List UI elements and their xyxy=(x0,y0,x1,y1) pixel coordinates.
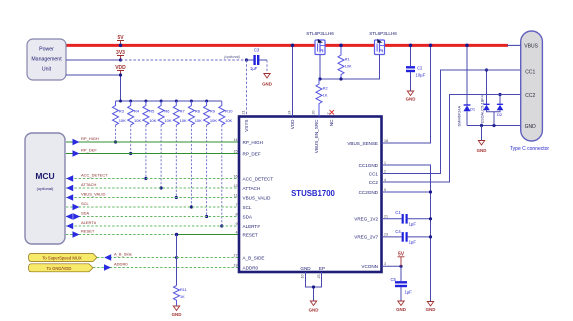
svg-text:(optional): (optional) xyxy=(37,186,54,191)
svg-text:RESET: RESET xyxy=(81,229,95,234)
wire gnd drop xyxy=(481,126,483,141)
svg-text:10K: 10K xyxy=(195,118,202,123)
ground (IC) xyxy=(309,301,319,312)
svg-text:1: 1 xyxy=(384,161,386,165)
capacitor C5 1uF xyxy=(391,266,413,300)
wire ADDR0 xyxy=(93,267,239,269)
svg-text:ATTACH: ATTACH xyxy=(81,182,97,187)
wire R4 to RP_DEF xyxy=(130,125,132,153)
node GND/EP join xyxy=(312,285,315,288)
wire VCONN xyxy=(382,265,402,267)
svg-text:RP_DEF: RP_DEF xyxy=(81,148,97,153)
svg-text:Management: Management xyxy=(31,57,62,63)
svg-text:15: 15 xyxy=(234,149,238,153)
node D1 on rail xyxy=(465,44,469,48)
svg-text:VBUS_EN_SRC: VBUS_EN_SRC xyxy=(314,119,319,153)
wire Q2 gate down xyxy=(319,55,380,80)
svg-text:ACC_DETECT: ACC_DETECT xyxy=(243,176,274,181)
svg-text:R4: R4 xyxy=(134,109,140,114)
wire RP_DEF xyxy=(66,153,239,155)
svg-text:VREG_2V7: VREG_2V7 xyxy=(354,235,378,240)
node RESET pulldown junction xyxy=(175,233,179,237)
svg-text:1µF: 1µF xyxy=(250,66,258,71)
svg-text:GND: GND xyxy=(396,307,406,312)
svg-text:CC2GND: CC2GND xyxy=(359,190,379,195)
node 5V on VBUS rail xyxy=(119,44,123,48)
svg-text:CC1: CC1 xyxy=(369,171,379,176)
MCU box (optional) xyxy=(25,133,65,244)
svg-text:ATTACH: ATTACH xyxy=(243,186,261,191)
svg-text:12: 12 xyxy=(234,184,238,188)
svg-text:D2: D2 xyxy=(497,112,503,117)
U1 right pin numbers xyxy=(384,139,388,266)
arrow A_B_SIDE xyxy=(104,254,111,261)
svg-text:STUSB1700: STUSB1700 xyxy=(291,189,335,198)
svg-text:VDD: VDD xyxy=(290,119,295,129)
ground (bus bottom) xyxy=(426,302,436,312)
wire VBUS stub to connector xyxy=(507,44,521,46)
svg-text:RP_HIGH: RP_HIGH xyxy=(243,140,263,145)
wire R10 to ALERT# xyxy=(221,125,223,226)
ground (ESD) xyxy=(477,141,487,153)
svg-text:C4: C4 xyxy=(395,229,401,234)
wire A_B_SIDE xyxy=(97,257,239,259)
svg-text:1µF: 1µF xyxy=(405,290,413,295)
svg-text:(optional): (optional) xyxy=(224,55,241,59)
svg-text:VREG_1V2: VREG_1V2 xyxy=(354,217,378,222)
svg-text:VSYS: VSYS xyxy=(244,120,249,132)
svg-text:20: 20 xyxy=(312,111,316,115)
svg-text:4: 4 xyxy=(236,230,238,234)
svg-text:R6: R6 xyxy=(164,109,170,114)
svg-text:10K: 10K xyxy=(149,118,156,123)
node VDD xyxy=(119,73,122,76)
svg-text:7: 7 xyxy=(236,203,238,207)
svg-text:SMM6F24A: SMM6F24A xyxy=(456,106,461,127)
svg-text:R8: R8 xyxy=(195,109,201,114)
svg-text:R3: R3 xyxy=(119,109,125,114)
svg-text:21: 21 xyxy=(242,111,246,115)
svg-text:C2: C2 xyxy=(417,66,423,71)
node D2 on CC2 xyxy=(498,93,501,96)
power symbol 5V (top) xyxy=(117,35,124,45)
svg-text:10K: 10K xyxy=(210,118,217,123)
resistor R11 1K xyxy=(174,286,187,306)
svg-text:STL6P3LLH6: STL6P3LLH6 xyxy=(369,31,397,36)
ground (C2) xyxy=(406,91,416,102)
svg-text:VCONN: VCONN xyxy=(361,264,378,269)
ground (C5) xyxy=(396,301,406,312)
wire CC1GND to gnd bus xyxy=(382,165,431,301)
svg-text:10K: 10K xyxy=(180,118,187,123)
node C1 on bus xyxy=(429,217,432,220)
svg-text:C3: C3 xyxy=(254,48,260,53)
ground (R11) xyxy=(172,306,182,317)
wire ALERT# xyxy=(66,225,239,227)
svg-text:GND: GND xyxy=(262,82,272,87)
wire SCL xyxy=(66,206,239,208)
wire RP_HIGH xyxy=(66,141,239,143)
wire CC2GND xyxy=(382,191,431,193)
svg-text:10K: 10K xyxy=(119,118,126,123)
svg-text:R11: R11 xyxy=(180,288,187,292)
svg-text:A_B_Side: A_B_Side xyxy=(114,252,133,257)
wire R6 to ATTACH xyxy=(160,125,162,188)
svg-text:GND: GND xyxy=(525,124,537,130)
diode D2 ESDALC5-1BF4 xyxy=(480,70,504,126)
svg-text:10K: 10K xyxy=(134,118,141,123)
svg-text:SCL: SCL xyxy=(81,201,90,206)
node rail feed xyxy=(119,100,122,103)
capacitor C3 1uF xyxy=(247,48,268,72)
svg-text:10K: 10K xyxy=(345,65,352,69)
node C2 on rail xyxy=(409,44,413,48)
resistor R1 10K xyxy=(338,45,352,79)
resistor R2 1K xyxy=(316,79,328,117)
svg-text:STL6P3LLH6: STL6P3LLH6 xyxy=(306,31,334,36)
svg-text:1µF: 1µF xyxy=(409,240,417,245)
arrow SCL out xyxy=(73,204,80,211)
svg-text:VBUS_SENSE: VBUS_SENSE xyxy=(347,141,378,146)
arrow RESET out xyxy=(73,231,80,238)
U1 left pin names xyxy=(243,140,274,270)
svg-text:ESDALC5-1BF4: ESDALC5-1BF4 xyxy=(480,94,485,123)
wire RESET dashed from MCU xyxy=(66,234,177,236)
svg-text:24: 24 xyxy=(288,111,292,115)
svg-text:A_B_SIDE: A_B_SIDE xyxy=(243,255,265,260)
node D2 on CC1 xyxy=(485,68,488,71)
resistor R7 10K xyxy=(173,101,187,125)
node CC2GND on bus xyxy=(429,190,432,193)
wire CC2 to connector xyxy=(382,95,521,183)
svg-text:GND: GND xyxy=(172,312,182,317)
arrow RP_DEF out xyxy=(73,150,80,157)
svg-text:25: 25 xyxy=(317,275,321,279)
wire ATTACH xyxy=(66,187,239,189)
wire CC1 to connector xyxy=(382,70,521,174)
power symbol VDD xyxy=(115,65,126,75)
wire R9 to SDA xyxy=(206,125,208,216)
U1 left pin numbers xyxy=(234,138,238,267)
svg-text:VBUS_VALID: VBUS_VALID xyxy=(81,192,105,197)
svg-text:R7: R7 xyxy=(180,109,186,114)
resistor R4 10K xyxy=(128,101,142,125)
svg-text:10K: 10K xyxy=(164,118,171,123)
svg-text:GND: GND xyxy=(406,97,416,102)
node R1 bottom on gate bus xyxy=(339,77,342,80)
svg-text:R2: R2 xyxy=(323,87,328,91)
NC pin no-connect X xyxy=(330,110,335,115)
svg-text:10K: 10K xyxy=(225,118,232,123)
svg-text:SDA: SDA xyxy=(243,214,253,219)
wire R7 to VBUS_VALID xyxy=(175,125,177,197)
svg-text:ALERT#: ALERT# xyxy=(81,220,97,225)
resistor R10 10K xyxy=(219,101,233,125)
arrow ALERT# in xyxy=(66,223,73,230)
svg-text:ADDR0: ADDR0 xyxy=(114,262,128,267)
svg-text:To GND/VDD: To GND/VDD xyxy=(47,266,72,271)
node gate bus / R2 xyxy=(318,77,321,80)
svg-text:GND: GND xyxy=(309,307,319,312)
wire D1 riser from rail xyxy=(466,45,468,105)
svg-text:2: 2 xyxy=(384,169,386,173)
svg-text:RESET: RESET xyxy=(243,232,259,237)
svg-text:17: 17 xyxy=(234,253,238,257)
wire VBUS 5V rail (red) xyxy=(66,44,508,47)
wire pull-up rail VDD xyxy=(116,100,222,102)
svg-text:MCU: MCU xyxy=(35,171,54,181)
svg-text:8: 8 xyxy=(236,212,238,216)
svg-text:ACC_DETECT: ACC_DETECT xyxy=(81,173,108,178)
wire VBUS_VALID xyxy=(66,197,239,199)
U1 bottom pin names xyxy=(300,266,325,271)
svg-text:RP_HIGH: RP_HIGH xyxy=(81,136,99,141)
wire VDD pin to 5V rail xyxy=(292,45,294,116)
resistor R6 10K xyxy=(158,101,172,125)
wire VBUS_SENSE riser xyxy=(382,45,431,143)
svg-text:ADDR0: ADDR0 xyxy=(243,265,259,270)
svg-text:Unit: Unit xyxy=(42,67,52,73)
svg-text:R9: R9 xyxy=(210,109,216,114)
svg-text:9: 9 xyxy=(236,222,238,226)
svg-text:D1: D1 xyxy=(470,107,476,112)
svg-text:R10: R10 xyxy=(225,109,233,114)
diode D1 SMM6F24A xyxy=(456,105,476,127)
op IC U1 STUSB1700 body xyxy=(239,117,382,273)
U1 top pin names (vertical) xyxy=(244,119,334,153)
wire SDA xyxy=(66,216,239,218)
svg-text:1K: 1K xyxy=(180,295,185,299)
svg-text:C5: C5 xyxy=(391,277,397,282)
arrow ACC_DETECT in xyxy=(66,175,73,182)
svg-text:16: 16 xyxy=(234,174,238,178)
U1 right pin names xyxy=(347,141,378,269)
svg-text:14: 14 xyxy=(234,138,238,142)
svg-text:21: 21 xyxy=(384,215,388,219)
svg-text:23: 23 xyxy=(384,233,388,237)
U1 top pin numbers xyxy=(242,111,331,115)
svg-text:Type C connector: Type C connector xyxy=(510,146,550,152)
arrow RP_HIGH out xyxy=(73,139,80,146)
node VDD on rail xyxy=(291,44,295,48)
svg-text:SCL: SCL xyxy=(243,205,252,210)
wire Q1 gate down xyxy=(319,55,321,80)
resistor R3 10K xyxy=(113,101,127,125)
svg-text:RP_DEF: RP_DEF xyxy=(243,151,261,156)
wire IC GND/EP to ground xyxy=(306,272,322,301)
wire RESET solid to IC xyxy=(177,234,240,236)
node VSYS net junction xyxy=(245,58,248,61)
svg-text:To SuperSpeed MUX: To SuperSpeed MUX xyxy=(42,256,82,261)
arrow ADDR0 xyxy=(104,264,111,271)
svg-text:18: 18 xyxy=(384,139,388,143)
svg-text:CC2: CC2 xyxy=(525,93,535,99)
svg-text:Power: Power xyxy=(39,47,54,53)
svg-text:4: 4 xyxy=(384,178,386,182)
svg-text:3: 3 xyxy=(384,262,386,266)
svg-text:1µF: 1µF xyxy=(409,222,417,227)
node 3V3 xyxy=(119,58,122,61)
svg-text:R1: R1 xyxy=(345,58,350,62)
arrow ATTACH in xyxy=(66,185,73,192)
capacitor C4 1uF xyxy=(382,229,431,245)
svg-text:CC1GND: CC1GND xyxy=(359,163,379,168)
arrow SDA bidirectional xyxy=(66,213,73,220)
svg-text:CC1: CC1 xyxy=(525,69,535,75)
capacitor C1 1uF xyxy=(382,210,431,227)
node C4 on bus xyxy=(429,235,432,238)
wire RESET pulldown drop xyxy=(176,235,178,286)
resistor R8 10K xyxy=(188,101,202,125)
svg-text:VBUS: VBUS xyxy=(524,44,538,50)
wire dashed down to VSYS pin xyxy=(246,60,248,117)
arrow VBUS_VALID in xyxy=(66,194,73,201)
svg-text:GND: GND xyxy=(426,307,436,312)
svg-text:EP: EP xyxy=(319,266,325,271)
transistor Q1 STL6P3LLH6 xyxy=(315,39,325,55)
node A_B_SIDE crossing xyxy=(175,256,178,259)
ground (C3) xyxy=(262,74,272,87)
wire R5 to ACC_DETECT xyxy=(145,125,147,178)
wire R3 to RP_HIGH xyxy=(115,125,117,142)
wire C3 to ground xyxy=(266,60,268,73)
node D2 tap xyxy=(492,124,495,127)
svg-text:GND: GND xyxy=(300,266,311,271)
svg-text:R5: R5 xyxy=(149,109,155,114)
wire ACC_DETECT xyxy=(66,178,239,180)
U1 bottom pin numbers xyxy=(301,275,322,279)
svg-text:NC: NC xyxy=(329,119,334,126)
power symbol 3V3 xyxy=(116,50,125,60)
node VBUS_SENSE on rail xyxy=(429,44,433,48)
svg-text:ALERT#: ALERT# xyxy=(243,224,261,229)
svg-text:CC2: CC2 xyxy=(369,180,379,185)
connector J1 Type C xyxy=(521,31,543,141)
wire VDD from PMU down to pull-up rail xyxy=(66,75,121,101)
net label ribbon To SuperSpeed MUX xyxy=(29,254,98,262)
svg-text:C1: C1 xyxy=(395,210,401,215)
svg-text:SDA: SDA xyxy=(81,211,90,216)
node VCONN xyxy=(399,265,402,268)
svg-text:19: 19 xyxy=(234,263,238,267)
power symbol 5V (VCONN) xyxy=(398,251,405,266)
transistor Q2 STL6P3LLH6 xyxy=(375,39,385,55)
node ESD gnd tap xyxy=(480,124,483,127)
resistor R5 10K xyxy=(143,101,157,125)
resistor R9 10K xyxy=(204,101,218,125)
svg-text:GND: GND xyxy=(477,148,487,153)
wire 3V3 from PMU xyxy=(66,59,121,61)
wire 3V3 optional dashed to VSYS xyxy=(121,59,247,61)
svg-text:1K: 1K xyxy=(323,94,328,98)
net label ribbon To GND/VDD xyxy=(29,264,94,272)
wire R8 to SCL xyxy=(190,125,192,207)
power management unit box xyxy=(27,39,66,80)
svg-text:VBUS_VALID: VBUS_VALID xyxy=(243,195,272,200)
capacitor C2 10uF xyxy=(406,45,426,90)
svg-text:11: 11 xyxy=(234,193,238,197)
svg-text:10µF: 10µF xyxy=(416,73,426,78)
node R1 top on rail xyxy=(339,44,343,48)
svg-text:5: 5 xyxy=(384,188,386,192)
svg-text:10: 10 xyxy=(301,275,305,279)
wire ESD GND line to connector xyxy=(467,125,521,127)
